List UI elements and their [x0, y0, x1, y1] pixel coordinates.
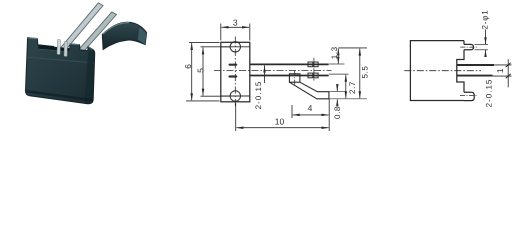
svg-text:0.8: 0.8 — [333, 106, 342, 119]
svg-text:5.5: 5.5 — [360, 66, 369, 79]
svg-text:2-0.15: 2-0.15 — [254, 81, 263, 110]
svg-text:1: 1 — [495, 68, 505, 73]
svg-text:4: 4 — [308, 103, 313, 113]
svg-text:3: 3 — [233, 17, 238, 27]
svg-text:1.3: 1.3 — [330, 46, 339, 59]
svg-text:6: 6 — [183, 64, 193, 69]
svg-text:2-0.15: 2-0.15 — [484, 79, 493, 108]
svg-text:5: 5 — [195, 68, 205, 73]
svg-text:10: 10 — [275, 117, 285, 127]
svg-text:2-φ1: 2-φ1 — [481, 10, 490, 30]
svg-text:2.7: 2.7 — [348, 81, 357, 94]
